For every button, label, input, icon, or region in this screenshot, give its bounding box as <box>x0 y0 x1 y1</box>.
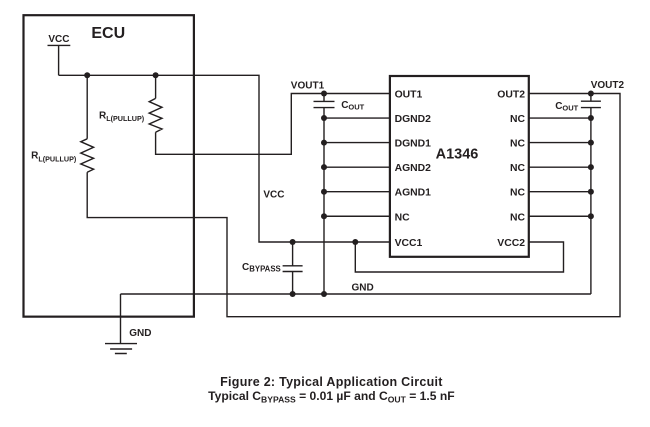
svg-text:Figure 2: Typical Application: Figure 2: Typical Application Circuit <box>220 375 443 389</box>
svg-text:ECU: ECU <box>91 25 125 42</box>
svg-text:CBYPASS: CBYPASS <box>242 262 281 274</box>
svg-text:RL(PULLUP): RL(PULLUP) <box>99 110 145 123</box>
svg-text:VOUT2: VOUT2 <box>591 80 625 91</box>
svg-text:NC: NC <box>510 188 526 199</box>
svg-text:Typical CBYPASS = 0.01 µF and: Typical CBYPASS = 0.01 µF and COUT = 1.5… <box>208 389 454 405</box>
svg-text:RL(PULLUP): RL(PULLUP) <box>31 151 77 164</box>
svg-text:COUT: COUT <box>555 101 578 113</box>
svg-text:NC: NC <box>395 212 411 223</box>
svg-text:NC: NC <box>510 114 526 125</box>
svg-text:GND: GND <box>352 283 374 294</box>
svg-text:OUT2: OUT2 <box>497 90 525 101</box>
svg-text:VCC2: VCC2 <box>497 238 525 249</box>
svg-text:VCC: VCC <box>48 34 69 45</box>
svg-text:DGND1: DGND1 <box>395 139 432 150</box>
svg-text:VCC1: VCC1 <box>395 238 423 249</box>
svg-text:COUT: COUT <box>341 100 364 112</box>
svg-text:OUT1: OUT1 <box>395 90 423 101</box>
svg-text:AGND2: AGND2 <box>395 163 432 174</box>
svg-text:A1346: A1346 <box>436 147 479 163</box>
svg-text:VCC: VCC <box>263 190 284 201</box>
svg-text:NC: NC <box>510 163 526 174</box>
svg-text:NC: NC <box>510 139 526 150</box>
svg-text:DGND2: DGND2 <box>395 114 432 125</box>
svg-text:AGND1: AGND1 <box>395 188 432 199</box>
svg-text:GND: GND <box>129 328 151 339</box>
svg-text:VOUT1: VOUT1 <box>291 80 325 91</box>
svg-text:NC: NC <box>510 212 526 223</box>
